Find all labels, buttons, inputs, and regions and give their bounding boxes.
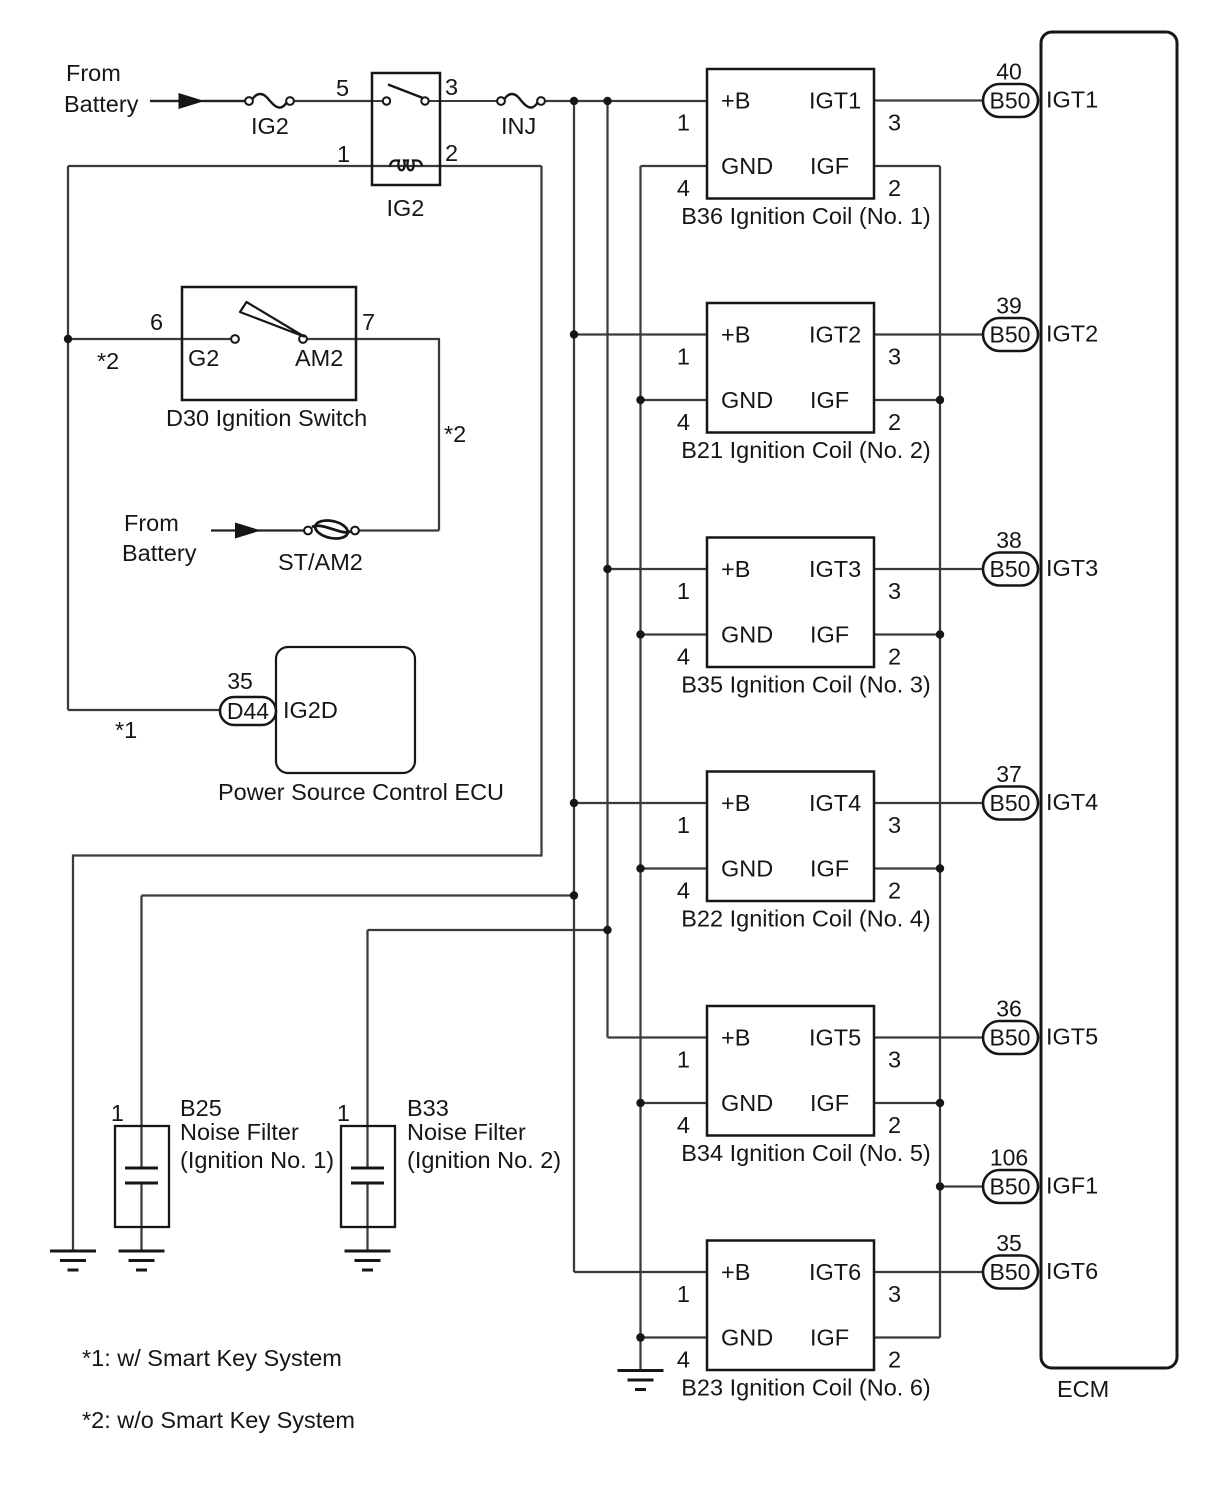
svg-text:Power Source Control ECU: Power Source Control ECU (218, 779, 504, 805)
svg-text:ST/AM2: ST/AM2 (278, 549, 363, 575)
svg-text:IG2: IG2 (251, 113, 289, 139)
svg-text:From: From (66, 60, 121, 86)
svg-text:IGF: IGF (810, 622, 849, 648)
svg-text:+B: +B (721, 1025, 750, 1051)
svg-text:+B: +B (721, 88, 750, 114)
svg-text:B35 Ignition Coil (No. 3): B35 Ignition Coil (No. 3) (681, 672, 930, 698)
svg-text:3: 3 (888, 812, 901, 838)
svg-text:(Ignition No. 1): (Ignition No. 1) (180, 1147, 334, 1173)
svg-text:B21 Ignition Coil (No. 2): B21 Ignition Coil (No. 2) (681, 437, 930, 463)
svg-text:GND: GND (721, 1090, 773, 1116)
svg-text:IG2: IG2 (387, 195, 425, 221)
svg-text:B25: B25 (180, 1095, 222, 1121)
svg-text:4: 4 (677, 1347, 690, 1373)
svg-text:1: 1 (111, 1100, 124, 1126)
svg-text:4: 4 (677, 1112, 690, 1138)
svg-text:2: 2 (445, 140, 458, 166)
svg-text:1: 1 (337, 141, 350, 167)
svg-text:B50: B50 (990, 556, 1031, 582)
svg-text:AM2: AM2 (295, 345, 343, 371)
svg-text:(Ignition No. 2): (Ignition No. 2) (407, 1147, 561, 1173)
svg-text:B50: B50 (990, 322, 1031, 348)
svg-text:*2: *2 (97, 348, 119, 374)
svg-text:IGT6: IGT6 (809, 1259, 861, 1285)
svg-text:IGF: IGF (810, 856, 849, 882)
svg-text:35: 35 (227, 668, 253, 694)
svg-text:IGT2: IGT2 (809, 322, 861, 348)
svg-text:39: 39 (996, 293, 1022, 319)
svg-text:B22 Ignition Coil (No. 4): B22 Ignition Coil (No. 4) (681, 906, 930, 932)
svg-text:B50: B50 (990, 1174, 1031, 1200)
svg-text:IGF: IGF (810, 1090, 849, 1116)
svg-text:IGF1: IGF1 (1046, 1173, 1098, 1199)
svg-text:G2: G2 (188, 345, 219, 371)
svg-text:IGT3: IGT3 (1046, 555, 1098, 581)
svg-text:35: 35 (996, 1230, 1022, 1256)
svg-text:37: 37 (996, 761, 1022, 787)
svg-text:2: 2 (888, 409, 901, 435)
svg-text:From: From (124, 510, 179, 536)
svg-text:D44: D44 (227, 698, 269, 724)
svg-text:IGF: IGF (810, 1325, 849, 1351)
svg-text:1: 1 (677, 1281, 690, 1307)
svg-text:3: 3 (888, 344, 901, 370)
svg-text:GND: GND (721, 622, 773, 648)
svg-text:1: 1 (677, 344, 690, 370)
svg-text:Noise Filter: Noise Filter (407, 1119, 526, 1145)
svg-text:1: 1 (677, 812, 690, 838)
svg-text:B36 Ignition Coil (No. 1): B36 Ignition Coil (No. 1) (681, 203, 930, 229)
svg-text:INJ: INJ (501, 113, 536, 139)
svg-text:IGF: IGF (810, 153, 849, 179)
svg-text:+B: +B (721, 322, 750, 348)
svg-text:IGT5: IGT5 (1046, 1024, 1098, 1050)
svg-text:40: 40 (996, 59, 1022, 85)
svg-text:GND: GND (721, 387, 773, 413)
svg-text:2: 2 (888, 175, 901, 201)
svg-text:B33: B33 (407, 1095, 449, 1121)
svg-text:+B: +B (721, 556, 750, 582)
svg-text:B50: B50 (990, 88, 1031, 114)
svg-text:IGF: IGF (810, 387, 849, 413)
svg-text:1: 1 (677, 1047, 690, 1073)
svg-text:1: 1 (677, 578, 690, 604)
svg-text:2: 2 (888, 1112, 901, 1138)
svg-text:GND: GND (721, 1325, 773, 1351)
svg-text:IGT1: IGT1 (809, 88, 861, 114)
svg-text:IGT6: IGT6 (1046, 1258, 1098, 1284)
svg-text:B34 Ignition Coil (No. 5): B34 Ignition Coil (No. 5) (681, 1140, 930, 1166)
svg-text:2: 2 (888, 878, 901, 904)
svg-text:3: 3 (888, 1281, 901, 1307)
svg-text:4: 4 (677, 644, 690, 670)
svg-text:3: 3 (888, 110, 901, 136)
svg-text:*2: *2 (444, 421, 466, 447)
svg-text:6: 6 (150, 309, 163, 335)
svg-text:5: 5 (336, 75, 349, 101)
svg-text:3: 3 (445, 74, 458, 100)
svg-text:IG2D: IG2D (283, 697, 338, 723)
svg-text:B50: B50 (990, 790, 1031, 816)
svg-text:GND: GND (721, 856, 773, 882)
svg-text:4: 4 (677, 409, 690, 435)
svg-text:*1: w/ Smart Key System: *1: w/ Smart Key System (82, 1345, 342, 1371)
svg-text:IGT2: IGT2 (1046, 321, 1098, 347)
svg-text:D30 Ignition Switch: D30 Ignition Switch (166, 405, 367, 431)
svg-text:+B: +B (721, 1259, 750, 1285)
svg-text:2: 2 (888, 644, 901, 670)
svg-text:3: 3 (888, 578, 901, 604)
svg-text:B50: B50 (990, 1259, 1031, 1285)
svg-text:36: 36 (996, 996, 1022, 1022)
svg-text:IGT3: IGT3 (809, 556, 861, 582)
svg-text:IGT4: IGT4 (1046, 789, 1098, 815)
svg-text:+B: +B (721, 790, 750, 816)
svg-text:2: 2 (888, 1347, 901, 1373)
svg-text:Battery: Battery (64, 91, 139, 117)
svg-text:*2: w/o Smart Key System: *2: w/o Smart Key System (82, 1407, 355, 1433)
svg-text:1: 1 (677, 110, 690, 136)
svg-text:IGT4: IGT4 (809, 790, 861, 816)
svg-text:B50: B50 (990, 1025, 1031, 1051)
svg-text:B23 Ignition Coil (No. 6): B23 Ignition Coil (No. 6) (681, 1375, 930, 1401)
svg-text:*1: *1 (115, 717, 137, 743)
svg-text:106: 106 (990, 1145, 1028, 1171)
svg-text:GND: GND (721, 153, 773, 179)
svg-text:4: 4 (677, 878, 690, 904)
svg-text:38: 38 (996, 527, 1022, 553)
svg-text:4: 4 (677, 175, 690, 201)
svg-text:IGT1: IGT1 (1046, 87, 1098, 113)
svg-text:Noise Filter: Noise Filter (180, 1119, 299, 1145)
svg-text:ECM: ECM (1057, 1376, 1109, 1402)
svg-text:Battery: Battery (122, 540, 197, 566)
svg-text:7: 7 (362, 309, 375, 335)
svg-text:3: 3 (888, 1047, 901, 1073)
svg-text:1: 1 (337, 1100, 350, 1126)
svg-text:IGT5: IGT5 (809, 1025, 861, 1051)
